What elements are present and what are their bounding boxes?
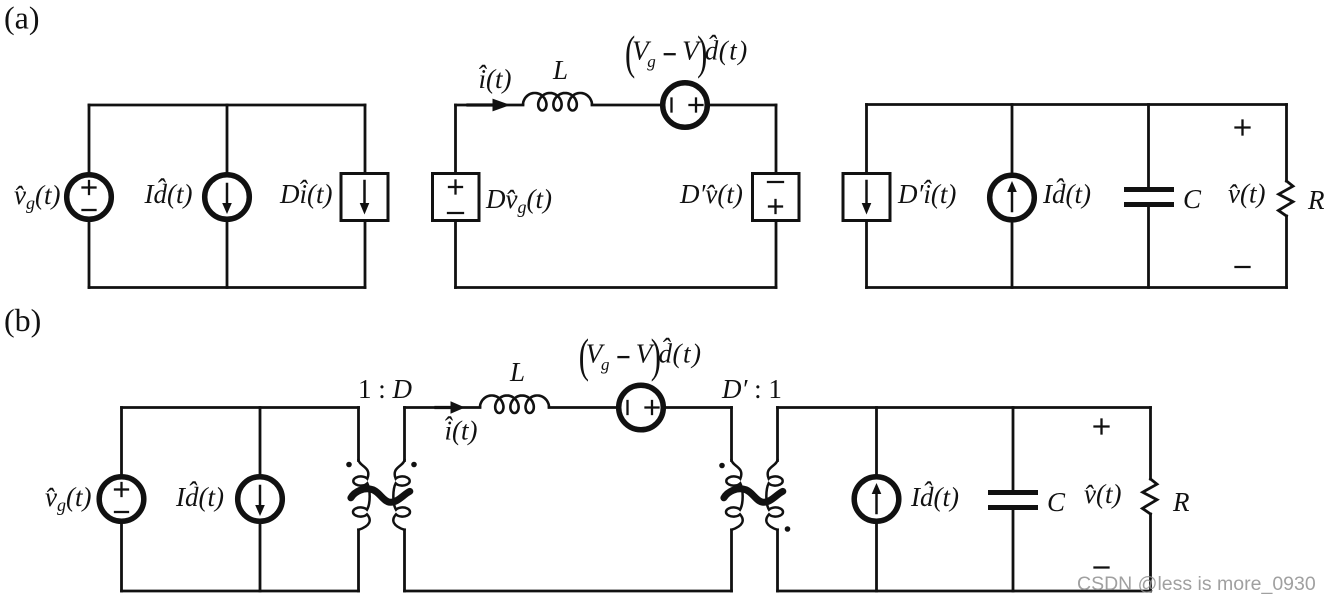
svg-text:L: L	[552, 55, 568, 85]
wire b-mid top mid segment	[549, 406, 617, 409]
label vg_hat(t) (a1)	[14, 180, 60, 213]
wire a1 right lower	[364, 221, 367, 288]
wire b-mid bottom	[405, 590, 732, 593]
resistor R (b) upper wire	[1149, 408, 1152, 480]
svg-text:Id̂(t): Id̂(t)	[910, 482, 959, 512]
label R (a3)	[1307, 185, 1325, 215]
label Id_hat(t) (a1)	[144, 179, 193, 209]
wire a2 right lower	[775, 221, 778, 288]
transformer T1 primary dot	[346, 462, 352, 468]
wire b-mid top left segment	[405, 406, 481, 409]
svg-text:d̂: d̂	[659, 338, 673, 368]
transformer T2 secondary wire upper	[776, 408, 779, 461]
wire a1 bottom	[89, 286, 365, 289]
transformer T2 primary wire lower	[730, 530, 733, 591]
wire a2 right upper	[775, 105, 778, 174]
resistor R (a3) zigzag	[1278, 181, 1293, 216]
part label (a)	[4, 0, 40, 36]
voltage source (Vg-V)d_hat (b)	[619, 385, 664, 430]
capacitor C (a3) plates	[1127, 190, 1172, 205]
dependent current source box D'i_hat (a3)	[843, 174, 890, 221]
svg-text:g: g	[647, 52, 656, 71]
wire b-right top	[778, 406, 1151, 409]
transformer T1 secondary wire upper	[403, 408, 406, 461]
transformer T1 ideal squiggle	[351, 489, 410, 503]
svg-text:D′ : 1: D′ : 1	[721, 374, 782, 404]
wire a3 source lower	[1011, 220, 1014, 288]
transformer T2 primary winding	[726, 460, 743, 530]
capacitor C (a3) lower wire	[1147, 207, 1150, 288]
resistor R (b) zigzag	[1142, 479, 1157, 514]
wire a3 top	[867, 103, 1287, 106]
svg-text:1 : D: 1 : D	[358, 374, 413, 404]
label D'v_hat(t) (a2)	[679, 179, 743, 209]
wire a1 right upper	[364, 105, 367, 174]
resistor R (b) lower wire	[1149, 514, 1152, 591]
part label (b)	[4, 302, 41, 338]
current arrow i_hat (b)	[436, 401, 465, 413]
transformer T2 secondary winding	[766, 460, 783, 530]
wire b-left left lower	[120, 523, 123, 591]
label C (a3)	[1183, 184, 1202, 214]
svg-text:Id̂(t): Id̂(t)	[1042, 179, 1091, 209]
svg-text:v̂(t): v̂(t)	[1228, 179, 1265, 209]
svg-text:L: L	[509, 357, 525, 387]
wire b-left mid lower	[259, 521, 262, 591]
svg-text:(t): (t)	[673, 338, 703, 368]
wire a2 left lower	[454, 221, 457, 288]
wire b-right source upper	[875, 408, 878, 478]
watermark CSDN	[1077, 573, 1316, 595]
wire b-left mid upper	[259, 408, 262, 478]
svg-text:(a): (a)	[4, 0, 40, 36]
svg-text:Id̂(t): Id̂(t)	[144, 179, 193, 209]
current source Id_hat (b-left)	[238, 477, 283, 522]
label C (b)	[1047, 487, 1066, 517]
label R (b)	[1172, 487, 1190, 517]
wire b-left left upper	[120, 408, 123, 476]
voltage source vg_hat (a1)	[67, 175, 112, 220]
voltage source vg_hat (b)	[99, 477, 144, 522]
voltage source (Vg-V)d_hat (a2)	[663, 83, 708, 128]
label i_hat(t) (a2)	[477, 60, 512, 94]
wire b-mid top right segment	[666, 406, 732, 409]
capacitor C (a3) upper wire	[1147, 105, 1150, 188]
transformer T2 secondary wire lower	[776, 530, 779, 591]
label i_hat(t) (b)	[443, 412, 478, 446]
wire a2 top mid segment	[592, 104, 661, 107]
wire a3 source upper	[1011, 105, 1014, 176]
plus terminal (a3)	[1236, 121, 1250, 135]
dependent current source box Di_hat (a1)	[341, 174, 388, 221]
transformer T1 secondary dot	[411, 462, 417, 468]
svg-text:CSDN @less is more_0930: CSDN @less is more_0930	[1077, 573, 1316, 595]
label Id_hat(t) (a3)	[1042, 179, 1091, 209]
wire a1 left lower	[88, 221, 91, 288]
wire b-right bottom	[778, 590, 1151, 593]
wire b-right source lower	[875, 521, 878, 591]
transformer T2 primary wire upper	[730, 408, 733, 461]
wire a2 top left segment	[456, 104, 524, 107]
wire b-left top	[122, 406, 359, 409]
minus terminal (a3)	[1236, 266, 1250, 268]
inductor L (a2)	[523, 93, 592, 111]
capacitor C (b) lower wire	[1012, 510, 1015, 591]
svg-text:v̂(t): v̂(t)	[1084, 479, 1121, 509]
label 1 : D	[358, 374, 413, 404]
dependent voltage source box Dvg_hat (a2)	[433, 174, 480, 221]
dependent voltage source box D'v_hat (a2)	[753, 174, 800, 221]
resistor R (a3) lower wire	[1285, 216, 1288, 288]
svg-text:R: R	[1172, 487, 1190, 517]
inductor L (b)	[480, 396, 549, 414]
wire a3 left upper	[865, 105, 868, 174]
svg-text:(t): (t)	[719, 35, 749, 65]
label (Vg-V)d_hat(t) (b)	[579, 330, 703, 382]
wire a2 left upper	[454, 105, 457, 174]
wire a2 top right segment	[710, 104, 777, 107]
svg-text:v̂g(t): v̂g(t)	[14, 180, 60, 213]
label D' : 1	[721, 374, 782, 404]
current source Id_hat (a1)	[205, 175, 250, 220]
svg-text:Id̂(t): Id̂(t)	[175, 482, 224, 512]
wire a3 bottom	[867, 286, 1287, 289]
capacitor C (b) upper wire	[1012, 408, 1015, 491]
wire a1 mid upper	[226, 105, 229, 175]
transformer T1 primary winding	[353, 460, 370, 530]
svg-text:g: g	[601, 355, 610, 374]
transformer T2 primary dot	[719, 463, 725, 469]
transformer T2 secondary dot	[785, 526, 791, 532]
svg-text:C: C	[1047, 487, 1066, 517]
resistor R (a3) upper wire	[1285, 105, 1288, 182]
capacitor C (b) plates	[991, 493, 1036, 508]
wire a1 mid lower	[226, 219, 229, 288]
svg-text:d̂: d̂	[705, 35, 719, 65]
wire a1 top	[89, 104, 365, 107]
svg-text:C: C	[1183, 184, 1202, 214]
wire a3 left lower	[865, 221, 868, 288]
current source Id_hat (a3)	[990, 175, 1035, 220]
svg-text:(b): (b)	[4, 302, 41, 338]
minus terminal (b-right)	[1095, 566, 1109, 568]
label v_hat(t) (b)	[1084, 479, 1121, 509]
transformer T1 secondary wire lower	[403, 530, 406, 591]
label Id_hat(t) (b-left)	[175, 482, 224, 512]
label (Vg-V)d_hat(t) (a2)	[625, 27, 749, 79]
label Di_hat(t) (a1)	[279, 175, 332, 209]
label Id_hat(t) (b-right)	[910, 482, 959, 512]
wire a1 left upper	[88, 105, 91, 173]
transformer T1 primary wire lower	[357, 530, 360, 591]
plus terminal (b-right)	[1095, 420, 1109, 434]
label v_hat(t) (a3)	[1228, 179, 1265, 209]
svg-text:R: R	[1307, 185, 1325, 215]
transformer T1 secondary winding	[393, 460, 410, 530]
label D'i_hat(t) (a3)	[897, 175, 956, 209]
label L (a2)	[552, 55, 568, 85]
label vg_hat(t) (b)	[45, 482, 91, 515]
wire a2 bottom	[456, 286, 777, 289]
current source Id_hat (b-right)	[854, 477, 899, 522]
label L (b)	[509, 357, 525, 387]
svg-text:D′v̂(t): D′v̂(t)	[679, 179, 743, 209]
current arrow i_hat (a2)	[468, 99, 511, 112]
svg-text:v̂g(t): v̂g(t)	[45, 482, 91, 515]
wire b-left bottom	[122, 590, 359, 593]
transformer T1 primary wire upper	[357, 408, 360, 461]
transformer T2 ideal squiggle	[724, 489, 783, 503]
label Dvg_hat(t) (a2)	[485, 184, 552, 217]
